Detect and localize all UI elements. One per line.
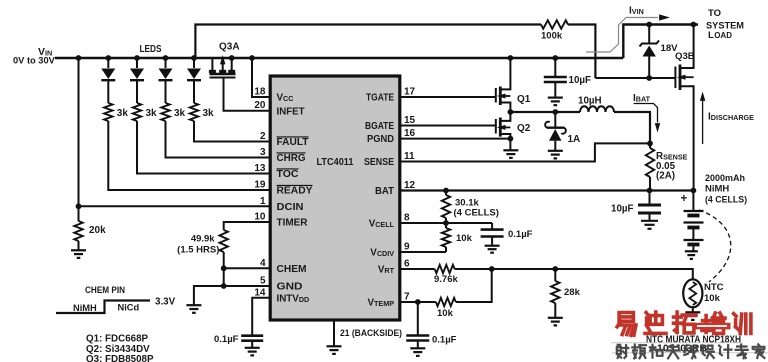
svg-text:10µH: 10µH — [578, 96, 602, 107]
node RSENSE top junction — [647, 141, 653, 147]
svg-text:Q1: FDC668P: Q1: FDC668P — [86, 334, 149, 345]
node load junction — [691, 22, 697, 28]
wire DCIN branch — [76, 55, 82, 61]
svg-text:VRT: VRT — [378, 265, 395, 276]
svg-text:(1.5 HRS): (1.5 HRS) — [177, 245, 219, 256]
resistor 9.76k — [435, 265, 455, 273]
svg-text:PGND: PGND — [367, 134, 394, 145]
wire inductor to RSENSE — [614, 112, 650, 143]
node phase junction — [508, 109, 514, 115]
svg-text:11: 11 — [404, 151, 415, 162]
svg-text:17: 17 — [404, 87, 416, 98]
svg-text:0.1µF: 0.1µF — [432, 335, 457, 346]
svg-text:NTC: NTC — [704, 282, 724, 293]
svg-text:GND: GND — [277, 282, 303, 293]
svg-text:7: 7 — [404, 292, 410, 303]
ground below 1A diode — [548, 150, 563, 152]
svg-text:14: 14 — [254, 287, 266, 298]
wire VRT to NTC — [555, 269, 693, 280]
svg-text:10µF: 10µF — [569, 75, 592, 86]
resistor RSENSE 0.05 — [646, 148, 654, 177]
svg-text:IBAT: IBAT — [633, 93, 651, 104]
svg-text:(2A): (2A) — [656, 171, 675, 182]
svg-text:(4 CELLS): (4 CELLS) — [705, 195, 747, 206]
wire top rail to 100k — [195, 25, 541, 59]
watermark light underlines — [611, 342, 742, 344]
annotation thermal coupling dashed arc — [699, 210, 731, 282]
ground below output cap — [641, 220, 658, 222]
op-amp U1 LTC4011 IC body — [270, 76, 400, 320]
svg-text:3k: 3k — [203, 108, 215, 119]
svg-text:28k: 28k — [564, 287, 581, 298]
svg-text:10: 10 — [254, 212, 266, 223]
wire VCDIV — [400, 251, 446, 253]
svg-text:8: 8 — [404, 213, 410, 224]
svg-text:3k: 3k — [117, 108, 129, 119]
wire phase node to inductor — [510, 111, 580, 113]
capacitor 0.1uF VCELL — [491, 223, 493, 229]
svg-text:NiCd: NiCd — [118, 303, 140, 313]
ground below battery — [685, 250, 698, 252]
LED D4 with 3k resistor — [191, 55, 197, 61]
svg-text:IDISCHARGE: IDISCHARGE — [708, 112, 754, 123]
node PGND junction — [508, 136, 514, 142]
wire GND pin — [194, 286, 270, 305]
ground below NTC — [685, 311, 700, 313]
svg-text:VTEMP: VTEMP — [367, 298, 394, 309]
node VTEMP junction — [415, 299, 421, 305]
watermark gray slogan — [617, 345, 629, 358]
svg-text:(4 CELLS): (4 CELLS) — [454, 208, 499, 219]
svg-text:DCIN: DCIN — [277, 202, 304, 213]
ground below INTVDD cap — [245, 347, 260, 349]
annotation IVIN arrow — [586, 18, 658, 53]
LED D3 with 3k resistor — [163, 55, 169, 61]
wire Q3B gate line — [595, 77, 674, 79]
annotation IBAT arrow — [634, 104, 658, 123]
ground below Q2 — [503, 149, 518, 151]
svg-text:16: 16 — [404, 128, 416, 139]
svg-text:3.3V: 3.3V — [155, 297, 176, 308]
capacitor 10uF input — [552, 55, 558, 61]
svg-text:IVIN: IVIN — [629, 6, 644, 17]
node CHEM junction — [221, 265, 227, 271]
diode 1A schottky — [552, 109, 558, 115]
svg-text:1A: 1A — [568, 134, 581, 145]
node zener-gate junction — [646, 75, 652, 81]
svg-text:VCDIV: VCDIV — [370, 248, 394, 259]
battery 2000mAh NiMH — [691, 188, 697, 194]
svg-text:OAD: OAD — [714, 31, 732, 40]
svg-text:21 (BACKSIDE): 21 (BACKSIDE) — [340, 328, 402, 339]
wire rail riser to load — [623, 25, 698, 59]
svg-text:Q3: FDB8508P: Q3: FDB8508P — [86, 354, 154, 362]
wire Q3A gate to INFET pin 20 — [224, 78, 271, 111]
LED D1 with 3k resistor — [105, 55, 111, 61]
svg-text:0.1µF: 0.1µF — [214, 334, 239, 345]
node VRT junction — [489, 266, 495, 272]
wire VTEMP — [400, 301, 418, 303]
svg-text:Q3A: Q3A — [219, 42, 240, 53]
svg-text:4: 4 — [260, 258, 266, 269]
svg-text:Q2: Q2 — [517, 123, 531, 134]
wire TIMER to 49.9k — [224, 222, 271, 230]
svg-text:9: 9 — [404, 242, 410, 253]
wire PGND to Q2 source — [400, 138, 511, 140]
ground below VCELL cap — [485, 245, 500, 247]
svg-text:VCC: VCC — [277, 93, 294, 104]
svg-text:3k: 3k — [146, 108, 158, 119]
wire VRT — [400, 268, 435, 270]
svg-text:6: 6 — [404, 259, 410, 270]
svg-text:SENSE: SENSE — [364, 157, 394, 168]
svg-text:FAULT: FAULT — [277, 137, 309, 148]
svg-text:CHEM PIN: CHEM PIN — [85, 285, 125, 296]
resistor 28k — [554, 269, 556, 281]
svg-text:LEDS: LEDS — [140, 44, 162, 55]
svg-text:10µF: 10µF — [611, 204, 634, 215]
svg-text:INFET: INFET — [277, 106, 305, 117]
wire BGATE to Q2 gate — [400, 125, 496, 127]
ground below 20k — [71, 249, 86, 251]
svg-text:+: + — [681, 193, 688, 205]
wire TGATE to Q1 gate — [400, 96, 496, 98]
wire INTVDD to bypass cap — [252, 298, 270, 335]
wire VCC pin 18 riser — [249, 55, 255, 61]
svg-text:1: 1 — [260, 196, 266, 207]
svg-text:Q1: Q1 — [517, 94, 531, 105]
resistor 10k cell divider — [445, 223, 447, 228]
wire CHEM pin — [224, 267, 271, 269]
node 28k junction — [552, 266, 558, 272]
svg-text:9.76k: 9.76k — [434, 274, 458, 285]
svg-text:100k: 100k — [541, 31, 563, 42]
svg-text:READY: READY — [277, 186, 313, 197]
thermistor NTC 10k — [683, 279, 702, 307]
ground below 28k — [548, 317, 563, 319]
wire SENSE trace — [400, 143, 650, 161]
svg-text:VCELL: VCELL — [369, 219, 395, 230]
svg-text:10k: 10k — [456, 233, 473, 244]
svg-text:Q3B: Q3B — [675, 51, 695, 62]
svg-text:INTVDD: INTVDD — [277, 293, 310, 304]
resistor 20k — [74, 221, 82, 241]
svg-text:10k: 10k — [437, 308, 454, 319]
svg-text:20: 20 — [254, 100, 266, 111]
svg-text:18: 18 — [254, 87, 266, 98]
svg-text:L: L — [708, 30, 714, 41]
capacitor 10uF output — [647, 188, 653, 194]
svg-text:15: 15 — [404, 115, 416, 126]
pin 21 BACKSIDE ground — [333, 322, 335, 347]
svg-text:NiMH: NiMH — [705, 184, 729, 195]
wire VIN rail — [55, 57, 623, 59]
svg-text:0.1µF: 0.1µF — [508, 229, 533, 240]
capacitor 0.1uF VTEMP — [417, 302, 419, 335]
wire VRT to 28k — [492, 268, 556, 270]
svg-text:49.9k: 49.9k — [191, 234, 215, 245]
capacitor 0.1uF INTVDD — [241, 334, 263, 337]
svg-text:13: 13 — [254, 163, 266, 174]
svg-text:BAT: BAT — [375, 186, 394, 197]
svg-text:CHEM: CHEM — [277, 264, 307, 275]
svg-text:5: 5 — [260, 276, 266, 287]
svg-text:2: 2 — [260, 131, 266, 142]
wire BAT rail — [400, 189, 694, 191]
wire VCELL — [400, 222, 492, 224]
resistor 100k — [541, 20, 568, 28]
svg-text:LTC4011: LTC4011 — [317, 157, 354, 168]
resistor 10k VTEMP — [418, 301, 436, 303]
svg-text:20k: 20k — [89, 225, 106, 236]
svg-text:12: 12 — [404, 180, 416, 191]
svg-text:TO: TO — [708, 8, 721, 19]
ground below input cap — [548, 96, 563, 98]
svg-text:10k: 10k — [704, 293, 721, 304]
LED D2 with 3k resistor — [134, 55, 140, 61]
ground below VTEMP cap — [410, 347, 425, 349]
svg-text:3: 3 — [260, 147, 266, 158]
wire 100k to Q3B gate line — [568, 25, 595, 79]
node VCELL junction — [443, 220, 449, 226]
svg-text:BGATE: BGATE — [365, 121, 394, 132]
svg-text:TGATE: TGATE — [366, 93, 394, 104]
node GND junction — [221, 283, 227, 289]
resistor 49.9k timer — [220, 230, 228, 252]
svg-text:0V to 30V: 0V to 30V — [13, 56, 56, 66]
resistor 30.1k — [443, 188, 449, 194]
watermark red logo — [617, 313, 636, 336]
watermark red banner — [694, 323, 731, 330]
zener diode 18V — [646, 22, 652, 28]
svg-text:TOC: TOC — [277, 169, 299, 180]
svg-text:CHRG: CHRG — [277, 153, 306, 164]
svg-text:TIMER: TIMER — [277, 218, 308, 229]
annotation IDISCHARGE arrow — [702, 99, 704, 144]
svg-text:19: 19 — [254, 180, 266, 191]
node DCIN junction — [76, 203, 82, 209]
wire 10k up to VRT junction — [456, 269, 492, 302]
ground at GND pin — [186, 304, 201, 306]
svg-text:NiMH: NiMH — [73, 303, 97, 313]
svg-text:3k: 3k — [174, 108, 186, 119]
svg-text:2000mAh: 2000mAh — [705, 173, 745, 184]
